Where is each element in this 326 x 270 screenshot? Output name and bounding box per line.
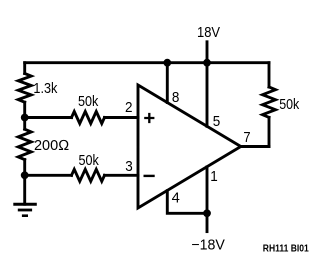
svg-text:7: 7 [243, 130, 250, 146]
wire R3 to pin 2 [105, 116, 139, 119]
svg-text:1.3k: 1.3k [33, 81, 58, 97]
op-amp U1 comparator triangle [138, 85, 241, 208]
wire ground stem [23, 175, 26, 204]
svg-text:5: 5 [213, 114, 221, 130]
svg-text:4: 4 [172, 190, 180, 206]
svg-text:8: 8 [172, 90, 180, 106]
svg-text:1: 1 [210, 169, 218, 185]
wire right column top lead [268, 63, 271, 87]
svg-text:−18V: −18V [191, 237, 225, 253]
wire node A to R3 [25, 116, 72, 119]
wire pin 7 output [241, 145, 269, 148]
wire pin 8 to rail [166, 63, 169, 103]
wire pin 5 to rail (18V) [206, 63, 209, 127]
wire left column top lead [23, 63, 26, 74]
svg-text:2: 2 [125, 100, 133, 116]
resistor R2 200ohm [18, 129, 31, 159]
svg-text:50k: 50k [279, 97, 300, 113]
svg-text:3: 3 [125, 159, 133, 175]
junction dot 18V/rail [203, 59, 211, 67]
node B junction dot [21, 171, 29, 179]
resistor R3 50k (to pin 2) [72, 112, 105, 124]
wire 18V label stem [206, 42, 209, 63]
svg-text:18V: 18V [197, 25, 220, 41]
junction dot pin8/rail [163, 59, 171, 67]
op-amp minus input marking [144, 175, 155, 177]
node A junction dot [21, 114, 29, 122]
wire -18V stem [206, 213, 209, 231]
junction dot V- node [203, 209, 211, 217]
op-amp plus input marking [144, 113, 154, 123]
wire 200ohm to node B [23, 118, 26, 176]
svg-text:50k: 50k [79, 153, 100, 169]
svg-text:200Ω: 200Ω [34, 138, 69, 154]
wire node B to R4 [25, 174, 72, 177]
wire pin 4 down and across [167, 191, 207, 214]
svg-text:RH111 BI01: RH111 BI01 [263, 243, 309, 254]
wire R5 bottom lead to output [268, 117, 271, 146]
wire R4 to pin 3 [105, 174, 139, 177]
wire top rail 18V [25, 61, 269, 64]
ground [13, 204, 37, 216]
wire pin 1 to V- node [206, 167, 209, 213]
svg-text:50k: 50k [78, 94, 99, 110]
resistor R5 50k (output pull-up) [263, 87, 276, 117]
resistor R1 1.3k [18, 74, 31, 103]
wire 1.3k to node A [23, 102, 26, 117]
resistor R4 50k (to pin 3) [72, 169, 105, 181]
